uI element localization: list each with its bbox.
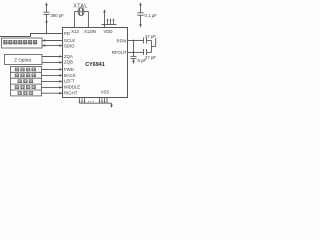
svg-text:390 pF: 390 pF bbox=[51, 13, 65, 18]
capacitor C3 27pF top bbox=[144, 38, 152, 44]
wire MIDDLE bbox=[42, 86, 63, 88]
wire BACK bbox=[42, 74, 63, 76]
power VDD arrow bbox=[102, 9, 117, 27]
svg-text:27 pF: 27 pF bbox=[145, 34, 156, 39]
svg-text:Z Optics: Z Optics bbox=[14, 57, 32, 62]
node RFOUT junction bbox=[133, 52, 135, 54]
svg-text:0.1 μF: 0.1 μF bbox=[145, 13, 158, 18]
row back button text bbox=[15, 74, 36, 78]
svg-text:MIDDLE: MIDDLE bbox=[64, 85, 80, 90]
svg-text:ZQB: ZQB bbox=[64, 60, 73, 65]
svg-text:5 pF: 5 pF bbox=[138, 58, 147, 63]
row left button text bbox=[18, 79, 33, 83]
svg-text:RFIN: RFIN bbox=[116, 38, 126, 43]
svg-text:BACK: BACK bbox=[64, 73, 76, 78]
wire RFIN bbox=[128, 40, 144, 42]
svg-text:X13: X13 bbox=[71, 29, 79, 34]
wire SDIO bbox=[42, 45, 63, 47]
wire RF link bbox=[133, 41, 135, 53]
background bbox=[0, 0, 160, 110]
wire PD from left edge bbox=[0, 34, 63, 37]
box optical mouse sensor bbox=[2, 38, 43, 48]
capacitor C1 390pF bbox=[44, 2, 50, 33]
capacitor C5 5pF bbox=[131, 52, 137, 64]
row forward button text bbox=[15, 68, 36, 72]
svg-text:X13IN: X13IN bbox=[84, 29, 96, 34]
wire ZQA bbox=[42, 56, 63, 58]
wire antenna bbox=[152, 38, 156, 52]
row right button text bbox=[18, 91, 33, 95]
svg-text:VDD: VDD bbox=[103, 29, 112, 34]
svg-text:RIGHT: RIGHT bbox=[64, 91, 78, 96]
svg-text:SDIO: SDIO bbox=[64, 44, 75, 49]
wire SCLK bbox=[42, 40, 63, 42]
svg-text:ZQA: ZQA bbox=[64, 54, 73, 59]
svg-text:SCLK: SCLK bbox=[64, 38, 75, 43]
svg-text:CY6941: CY6941 bbox=[85, 62, 104, 68]
wire RFOUT bbox=[128, 51, 144, 53]
node PD-capacitor junction bbox=[46, 33, 48, 35]
wire FWD bbox=[42, 68, 63, 70]
svg-text:RFOUT: RFOUT bbox=[112, 50, 127, 55]
node RFIN junction bbox=[133, 40, 135, 42]
svg-text:27 pF: 27 pF bbox=[145, 55, 156, 60]
wire ZQB bbox=[42, 61, 63, 63]
button rows table bbox=[11, 66, 42, 96]
capacitor C4 27pF bottom bbox=[144, 49, 152, 55]
svg-text:VSS: VSS bbox=[101, 90, 110, 95]
row middle button text bbox=[15, 85, 36, 89]
svg-text:LEFT: LEFT bbox=[64, 79, 75, 84]
svg-text:FWD: FWD bbox=[64, 67, 74, 72]
ground VSS rail bbox=[79, 98, 113, 109]
svg-text:PD: PD bbox=[64, 31, 70, 36]
IC U1 CY6941 body bbox=[63, 28, 128, 98]
wire RIGHT bbox=[42, 92, 63, 94]
capacitor C2 0.1uF bbox=[137, 2, 143, 27]
crystal XTAL bbox=[73, 3, 88, 27]
wire LEFT bbox=[42, 80, 63, 82]
box Z Optics bbox=[5, 55, 43, 65]
